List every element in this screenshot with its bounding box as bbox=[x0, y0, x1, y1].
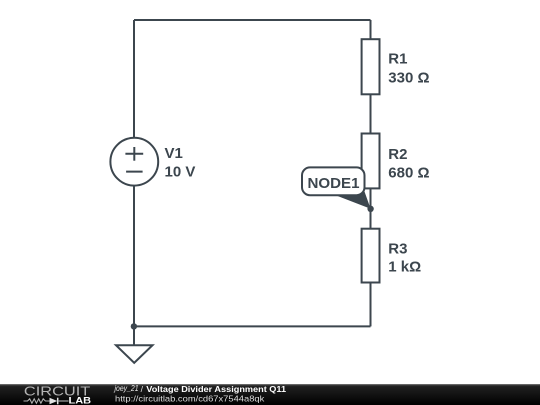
svg-text:joey_21: joey_21 bbox=[114, 384, 139, 393]
svg-text:1 kΩ: 1 kΩ bbox=[388, 259, 421, 276]
svg-text:V1: V1 bbox=[165, 145, 183, 162]
node junction dot NODE1 bbox=[367, 206, 373, 212]
svg-text:NODE1: NODE1 bbox=[308, 175, 360, 192]
voltage source V1 bbox=[110, 138, 158, 186]
resistor R1 bbox=[362, 39, 380, 94]
label V1 value bbox=[165, 145, 196, 180]
svg-text:R3: R3 bbox=[388, 240, 407, 257]
label R3 value bbox=[388, 240, 421, 275]
wire top bbox=[134, 19, 371, 21]
resistor R3 bbox=[362, 229, 380, 283]
CircuitLab logo wordmark bbox=[24, 384, 92, 405]
wire R3-bottom bbox=[370, 283, 372, 327]
wire left upper bbox=[133, 20, 135, 138]
resistor R2 bbox=[362, 134, 380, 189]
wire R1-R2 bbox=[370, 94, 372, 133]
label R1 value bbox=[388, 50, 429, 86]
logo resistor squiggle bbox=[24, 399, 50, 403]
wire right segment top bbox=[370, 20, 372, 39]
wire R2-R3 bbox=[370, 188, 372, 228]
svg-text:http://circuitlab.com/cd67x754: http://circuitlab.com/cd67x7544a8qk bbox=[115, 393, 265, 403]
svg-text:330 Ω: 330 Ω bbox=[388, 69, 429, 86]
svg-text:R2: R2 bbox=[388, 146, 407, 163]
wire left lower bbox=[133, 186, 135, 327]
svg-text:LAB: LAB bbox=[69, 396, 92, 405]
wire bottom bbox=[134, 325, 371, 327]
footer title text bbox=[114, 384, 287, 403]
ground bbox=[116, 326, 153, 363]
footer bar bbox=[0, 384, 540, 405]
svg-text:680 Ω: 680 Ω bbox=[388, 165, 429, 182]
logo diode bbox=[50, 398, 58, 405]
svg-text:10 V: 10 V bbox=[165, 164, 196, 181]
node NODE1 callout bbox=[302, 167, 371, 208]
node junction dot bottom bbox=[131, 323, 137, 329]
label R2 value bbox=[388, 146, 429, 181]
svg-text:R1: R1 bbox=[388, 50, 407, 67]
